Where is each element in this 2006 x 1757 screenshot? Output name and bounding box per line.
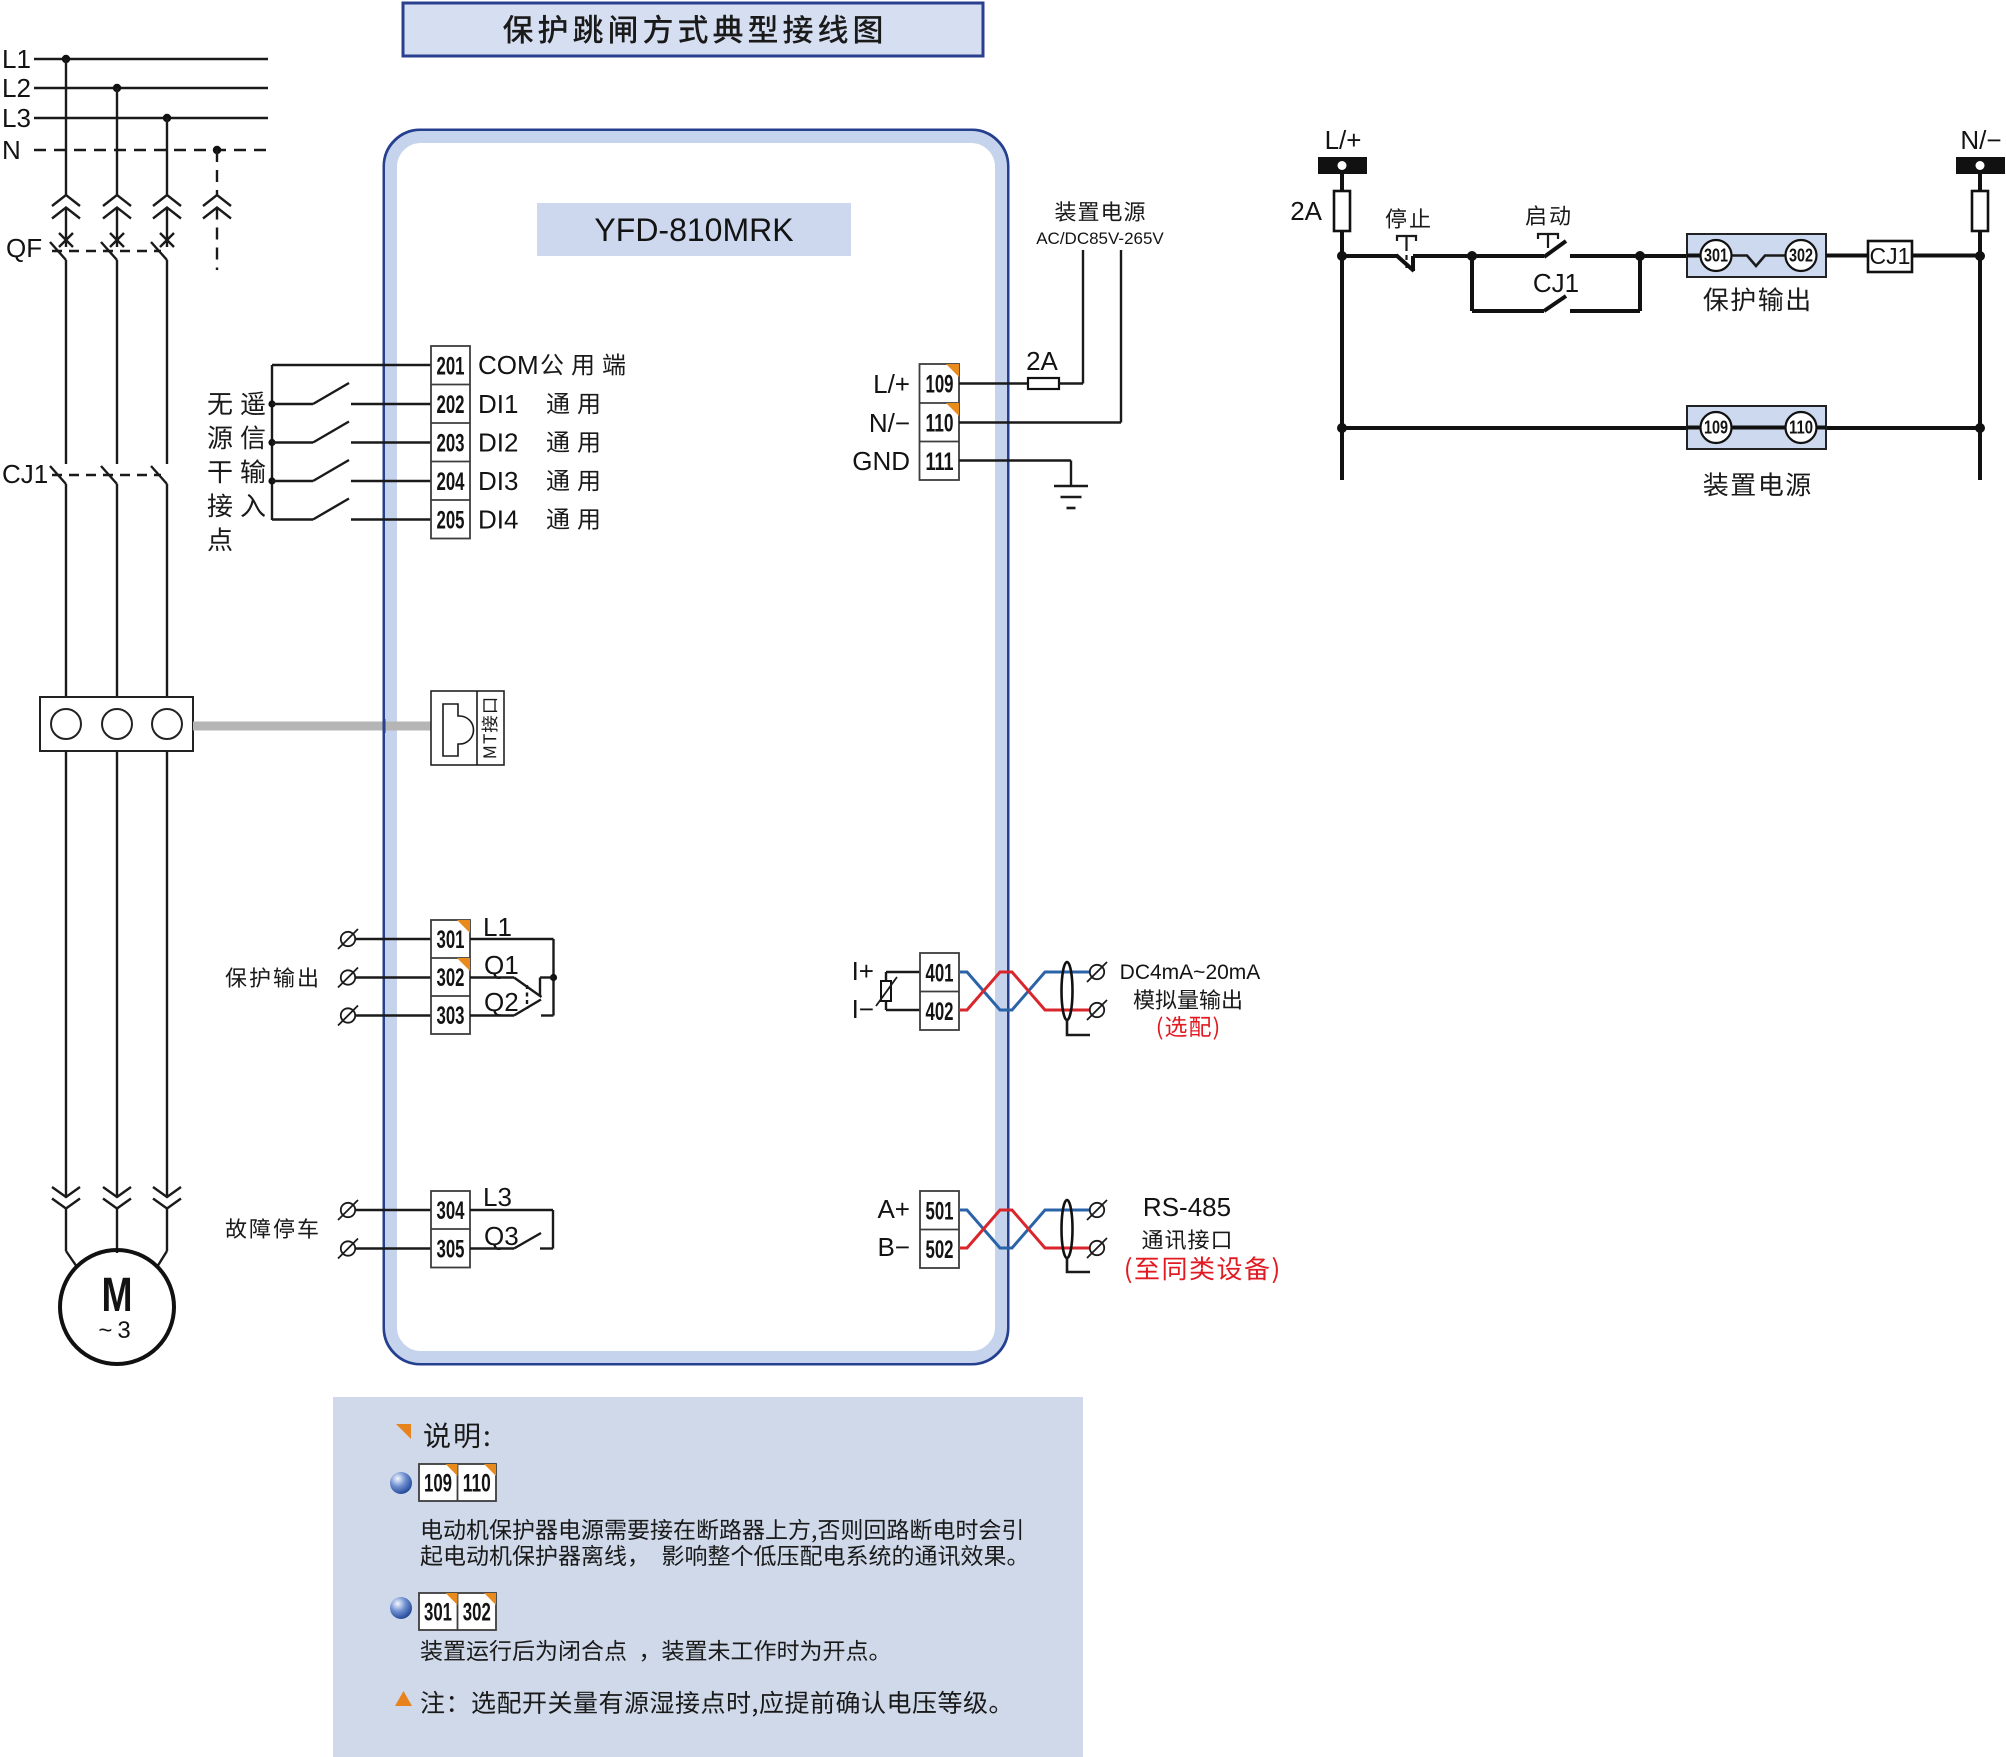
svg-text:110: 110 xyxy=(463,1470,491,1498)
relay contact box 301-302 xyxy=(1687,234,1826,277)
motor chevrons phase A xyxy=(52,1187,80,1209)
svg-text:YFD-810MRK: YFD-810MRK xyxy=(594,212,793,248)
contactor coil CJ1 xyxy=(1868,241,1912,272)
screw terminal at 1210 xyxy=(338,1200,358,1220)
svg-text:501: 501 xyxy=(926,1197,954,1225)
wire phase C below QF xyxy=(166,260,168,464)
current transformer block xyxy=(40,697,193,751)
terminal 109 corner xyxy=(946,364,959,377)
svg-text:RS-485: RS-485 xyxy=(1143,1192,1231,1222)
wire phase B below CJ1 xyxy=(116,484,118,697)
wire phase C into motor xyxy=(166,1209,168,1252)
svg-text:B−: B− xyxy=(877,1232,910,1262)
svg-text:201: 201 xyxy=(437,352,465,380)
svg-text:202: 202 xyxy=(437,391,465,419)
note terminals 301|302 xyxy=(419,1593,496,1630)
relay NO contact 304-305 xyxy=(470,1209,553,1211)
svg-text:Q3: Q3 xyxy=(484,1221,519,1251)
wire phase B to motor xyxy=(116,751,118,1197)
svg-text:AC/DC85V-265V: AC/DC85V-265V xyxy=(1036,229,1164,248)
cable shield 501-502 xyxy=(1062,1200,1073,1258)
svg-text:205: 205 xyxy=(437,506,465,534)
contactor CJ1 pole C xyxy=(151,466,167,484)
svg-text:204: 204 xyxy=(437,468,465,496)
svg-text:A+: A+ xyxy=(877,1194,910,1224)
terminal block 201-205 xyxy=(431,346,470,539)
label 保护输出 (contact) xyxy=(1703,287,1808,311)
cable shield 401-402 xyxy=(1062,962,1073,1020)
breaker QF pole B xyxy=(110,233,124,247)
node DI1 xyxy=(268,400,275,407)
wire box to CJ1 coil xyxy=(1826,254,1868,258)
node DI2 xyxy=(268,439,275,446)
L/+ supply bar xyxy=(1318,157,1367,174)
device model label box xyxy=(537,203,851,256)
start button NO contact xyxy=(1544,241,1566,257)
terminal block 401-402 xyxy=(920,953,959,1030)
svg-text:402: 402 xyxy=(926,998,954,1026)
svg-text:COM: COM xyxy=(478,350,539,380)
svg-text:110: 110 xyxy=(1789,418,1813,438)
svg-text:302: 302 xyxy=(1789,246,1813,266)
ground symbol xyxy=(1054,485,1088,488)
bullet sphere 2 xyxy=(390,1597,412,1619)
screw terminal analog - xyxy=(1087,1000,1107,1020)
svg-text:L/+: L/+ xyxy=(1325,125,1362,155)
wire rung to stop xyxy=(1342,254,1397,258)
wire 111 to ground xyxy=(959,459,1071,461)
svg-text:N: N xyxy=(2,135,21,165)
note terminals 109|110 xyxy=(419,1464,496,1501)
title box xyxy=(403,3,983,56)
svg-text:L2: L2 xyxy=(2,73,31,103)
svg-text:110: 110 xyxy=(926,409,954,437)
screw terminal RS485 A xyxy=(1087,1200,1107,1220)
terminal 110 corner xyxy=(946,403,959,416)
motor chevrons phase C xyxy=(153,1187,181,1209)
note heading 说明: xyxy=(424,1422,488,1448)
label (选配) xyxy=(1158,1016,1218,1040)
wire 110 to supply xyxy=(959,421,1121,423)
svg-text:N/−: N/− xyxy=(1960,125,2001,155)
MT接口 label xyxy=(482,699,498,758)
node branch-left xyxy=(1467,251,1477,261)
svg-text:L3: L3 xyxy=(483,1182,512,1212)
fuse (control N) xyxy=(1972,191,1988,231)
drawout chevrons phase A xyxy=(52,195,80,219)
note warning text xyxy=(421,1691,997,1717)
label 保护输出 (left) xyxy=(225,967,316,987)
switch DI1 xyxy=(272,403,313,405)
switch DI4 xyxy=(272,518,313,520)
drawout chevrons N xyxy=(203,195,231,219)
svg-text:CJ1: CJ1 xyxy=(1533,268,1579,298)
svg-text:I−: I− xyxy=(852,994,874,1024)
node rung-right xyxy=(1975,251,1985,261)
screw terminal at 1015.5 xyxy=(338,1006,358,1026)
terminal block 304-305 xyxy=(431,1191,470,1268)
svg-text:109: 109 xyxy=(1704,418,1728,438)
twisted pair 501-502 xyxy=(959,1210,1090,1248)
switch DI2 xyxy=(272,441,313,443)
terminal block 109-111 xyxy=(920,364,960,480)
terminal block 501-502 xyxy=(920,1191,959,1268)
wire phase C below CJ1 xyxy=(166,484,168,697)
wire phase B into motor xyxy=(116,1209,118,1254)
label 遥信输入 (vertical) xyxy=(241,391,265,415)
label 通讯接口 xyxy=(1142,1229,1229,1249)
svg-text:DI2: DI2 xyxy=(478,427,518,457)
label 故障停车 (left) xyxy=(226,1218,318,1238)
external load resistor xyxy=(886,971,920,973)
contactor CJ1 pole B xyxy=(101,466,117,484)
svg-text:DI3: DI3 xyxy=(478,466,518,496)
screw terminal at 939 xyxy=(338,929,358,949)
twisted pair 401-402 xyxy=(959,972,1090,1010)
svg-text:DI1: DI1 xyxy=(478,389,518,419)
label 装置电源 (box) xyxy=(1704,472,1811,496)
svg-text:301: 301 xyxy=(424,1599,452,1627)
stop button NC contact xyxy=(1411,256,1415,271)
MT jack symbol xyxy=(443,704,474,756)
svg-text:M: M xyxy=(102,1269,133,1322)
note paragraph 2 xyxy=(421,1640,877,1662)
wire start to node xyxy=(1570,254,1687,258)
supply rung xyxy=(1342,426,1687,430)
stop button 停止 actuator xyxy=(1397,236,1416,241)
terminal 301 corner xyxy=(457,920,470,933)
drawout chevrons phase B xyxy=(103,195,131,219)
wire coil to N xyxy=(1912,254,1980,258)
fuse 2A (control) xyxy=(1334,191,1350,231)
switch DI3 xyxy=(272,480,313,482)
node supply-left xyxy=(1337,423,1347,433)
motor chevrons phase B xyxy=(103,1187,131,1209)
svg-text:QF: QF xyxy=(6,233,42,263)
wire to 303 xyxy=(355,1014,431,1016)
wire phase B below QF xyxy=(116,260,118,464)
note paragraph 1 line 1 xyxy=(423,1519,1021,1543)
svg-text:L1: L1 xyxy=(2,44,31,74)
label 无源干接点 (vertical) xyxy=(208,393,232,415)
contactor CJ1 pole A xyxy=(50,466,66,484)
svg-text:Q1: Q1 xyxy=(484,950,519,980)
svg-text:401: 401 xyxy=(926,959,954,987)
DI common bus wire xyxy=(272,364,431,366)
QF linkage (dashed) xyxy=(52,250,161,252)
breaker QF pole C xyxy=(160,233,174,247)
svg-text:I+: I+ xyxy=(852,956,874,986)
label 启动 xyxy=(1526,205,1570,225)
svg-text:303: 303 xyxy=(437,1002,465,1030)
svg-text:301: 301 xyxy=(437,926,465,954)
relay SPDT contact 301-303 xyxy=(470,938,554,940)
svg-text:111: 111 xyxy=(926,448,954,476)
svg-text:301: 301 xyxy=(1704,246,1728,266)
MT port box xyxy=(431,691,504,765)
terminal 302 corner xyxy=(457,958,470,971)
wire phase A drop xyxy=(65,59,67,195)
title text 保护跳闸方式典型接线图 xyxy=(503,15,881,44)
start button 启动 actuator xyxy=(1538,234,1558,239)
svg-text:L/+: L/+ xyxy=(873,369,910,399)
svg-text:2A: 2A xyxy=(1026,346,1058,376)
note paragraph 1 line 2 xyxy=(421,1545,1015,1567)
node supply-right xyxy=(1975,423,1985,433)
svg-text:GND: GND xyxy=(852,446,910,476)
control left vertical xyxy=(1340,174,1344,480)
supply terminals box 109-110 xyxy=(1687,406,1826,449)
fuse 2A (device supply) xyxy=(1028,378,1059,389)
device YFD-810MRK enclosure xyxy=(384,130,1008,1364)
svg-text:CJ1: CJ1 xyxy=(1870,243,1911,269)
label 停止 xyxy=(1386,208,1430,228)
svg-text:DC4mA~20mA: DC4mA~20mA xyxy=(1120,961,1261,984)
svg-text:109: 109 xyxy=(424,1470,452,1498)
label 装置电源 (supply) xyxy=(1055,201,1144,221)
wire to 305 xyxy=(355,1247,431,1249)
note marker xyxy=(396,1424,411,1439)
N/- supply bar xyxy=(1956,157,2005,174)
svg-text:109: 109 xyxy=(926,371,954,399)
wire phase A to motor xyxy=(65,751,67,1197)
label (至同类设备) xyxy=(1126,1256,1278,1283)
wire phase C to motor xyxy=(166,751,168,1197)
node DI3 xyxy=(268,477,275,484)
wire phase A into motor xyxy=(65,1209,67,1252)
wire phase B drop xyxy=(116,88,118,195)
label 模拟量输出 xyxy=(1134,989,1241,1009)
svg-text:305: 305 xyxy=(437,1235,465,1263)
svg-text:N/−: N/− xyxy=(869,408,910,438)
svg-text:203: 203 xyxy=(437,429,465,457)
wire fuse to supply xyxy=(1059,382,1083,384)
svg-text:302: 302 xyxy=(437,964,465,992)
svg-text:304: 304 xyxy=(437,1197,465,1225)
wire N drop xyxy=(216,150,218,195)
terminal block 301-303 xyxy=(431,920,470,1034)
wire phase A below QF xyxy=(65,260,67,464)
screw terminal at 977.5 xyxy=(338,968,358,988)
wire to 301 xyxy=(355,938,431,940)
control right vertical xyxy=(1978,174,1982,480)
CJ1 linkage (dashed) xyxy=(52,474,161,476)
screw terminal analog + xyxy=(1087,962,1107,982)
bullet sphere 1 xyxy=(390,1472,412,1494)
svg-text:Q2: Q2 xyxy=(484,987,519,1017)
wire 109 to fuse xyxy=(959,382,1028,384)
wire stop to start xyxy=(1413,254,1544,258)
wire phase C drop xyxy=(166,118,168,195)
svg-text:DI4: DI4 xyxy=(478,504,518,534)
motor M xyxy=(60,1250,174,1364)
svg-text:302: 302 xyxy=(463,1599,491,1627)
breaker QF pole A xyxy=(59,233,73,247)
note warning triangle xyxy=(395,1691,412,1706)
wire to 302 xyxy=(355,976,431,978)
CT sensor cable (gray) xyxy=(193,722,431,731)
drawout chevrons phase C xyxy=(153,195,181,219)
node branch-right xyxy=(1635,251,1645,261)
CJ1 holding branch xyxy=(1470,256,1474,311)
node rung-left xyxy=(1337,251,1347,261)
svg-text:~3: ~3 xyxy=(98,1317,135,1344)
screw terminal RS485 B xyxy=(1087,1238,1107,1258)
svg-text:2A: 2A xyxy=(1290,196,1322,226)
svg-text:L1: L1 xyxy=(483,912,512,942)
wire to 304 xyxy=(355,1209,431,1211)
svg-text:CJ1: CJ1 xyxy=(2,459,48,489)
screw terminal at 1248.5 xyxy=(338,1239,358,1259)
note panel xyxy=(333,1397,1083,1757)
svg-text:L3: L3 xyxy=(2,103,31,133)
wire phase A below CJ1 xyxy=(65,484,67,697)
svg-text:502: 502 xyxy=(926,1236,954,1264)
